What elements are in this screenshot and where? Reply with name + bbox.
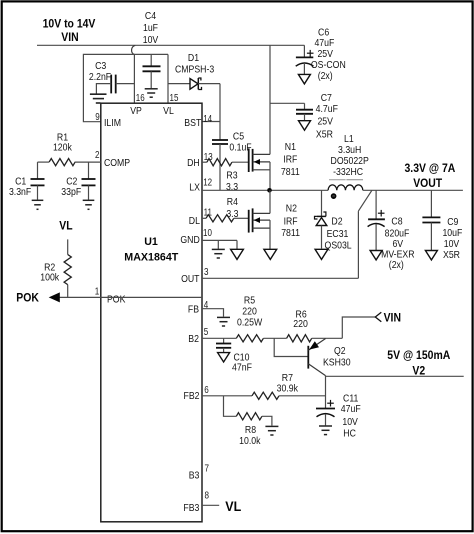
pin label FB3 (183, 502, 199, 514)
pin number 10 (203, 228, 212, 239)
svg-text:13: 13 (204, 152, 213, 163)
capacitor C7 (296, 103, 313, 120)
value label C1 (9, 175, 31, 198)
wire FB2 to R8 (224, 396, 237, 417)
pin label VP (130, 105, 142, 117)
value label Q2 (323, 345, 351, 369)
capacitor C10 (216, 338, 231, 352)
ground C11 (319, 426, 332, 435)
pin label LX (189, 182, 200, 194)
value label L1 (329, 133, 369, 180)
pin label VL (163, 105, 174, 117)
wire VP pin 16 vertical (133, 54, 135, 103)
svg-text:B2: B2 (188, 333, 199, 345)
value label R3 (226, 170, 238, 193)
pin number 11 (204, 208, 213, 219)
svg-text:DH: DH (187, 157, 200, 169)
svg-text:2: 2 (95, 150, 100, 161)
svg-text:-332HC: -332HC (333, 166, 363, 178)
value label C8 (381, 216, 415, 272)
svg-text:220: 220 (242, 305, 257, 317)
diode D2 EC31 QS03L (schottky) (315, 190, 327, 248)
svg-text:MAX1864T: MAX1864T (124, 251, 178, 263)
svg-text:1: 1 (95, 287, 100, 298)
svg-text:3.3nF: 3.3nF (9, 186, 31, 198)
svg-text:5: 5 (204, 327, 209, 338)
value label C4 (143, 10, 159, 46)
svg-text:0.25W: 0.25W (237, 317, 262, 329)
svg-text:Q2: Q2 (334, 345, 346, 357)
pin number 16 (136, 93, 145, 104)
svg-text:VOUT: VOUT (413, 176, 443, 190)
node VIN input label (43, 17, 96, 44)
ground C6 (298, 74, 310, 84)
svg-text:9: 9 (95, 112, 100, 123)
svg-text:VIN: VIN (384, 311, 401, 325)
resistor R4 (202, 215, 249, 222)
svg-text:VL: VL (163, 105, 174, 117)
svg-text:CMPSH-3: CMPSH-3 (175, 64, 214, 76)
value label R2 (40, 261, 60, 283)
pin number 12 (203, 178, 212, 189)
svg-text:POK: POK (107, 294, 125, 306)
pin label DH (187, 157, 200, 169)
value label C9 (442, 216, 462, 261)
svg-text:GND: GND (180, 234, 200, 246)
pin number 8 (205, 490, 210, 501)
svg-text:R3: R3 (226, 170, 237, 182)
capacitor C1 (31, 162, 45, 200)
pin number 4 (204, 300, 209, 311)
IC U1 MAX1864T body (101, 103, 202, 522)
value label R1 (53, 131, 73, 153)
value label D2 (325, 215, 352, 251)
wire FB3 pin 8 (202, 504, 219, 506)
pin number 3 (204, 267, 209, 278)
ground D2 (315, 249, 328, 259)
svg-text:FB: FB (188, 303, 199, 315)
svg-text:OUT: OUT (181, 273, 200, 285)
svg-text:IRF: IRF (284, 215, 298, 227)
svg-text:7811: 7811 (281, 227, 300, 239)
svg-text:220: 220 (293, 318, 308, 330)
svg-text:47nF: 47nF (232, 362, 252, 374)
resistor R3 (202, 159, 249, 166)
svg-text:33pF: 33pF (61, 186, 81, 198)
svg-text:C4: C4 (145, 10, 156, 22)
wire hook from VIN rail down to VP loop (132, 45, 136, 54)
svg-text:R8: R8 (245, 424, 256, 436)
svg-text:1uF: 1uF (143, 22, 158, 34)
pin number 2 (95, 150, 100, 161)
svg-text:4.7uF: 4.7uF (316, 103, 338, 115)
svg-text:3: 3 (204, 267, 209, 278)
resistor R5 (236, 335, 286, 342)
pin number 13 (204, 152, 213, 163)
pin label FB2 (184, 390, 200, 402)
wire VIN rail (37, 44, 304, 46)
svg-text:VL: VL (59, 219, 72, 233)
pin number 9 (95, 112, 100, 123)
pin label COMP (104, 157, 130, 169)
capacitor C2 (82, 162, 96, 200)
diode D1 CMPSH-3 (168, 78, 220, 90)
ground C8 (370, 251, 382, 260)
svg-text:FB3: FB3 (183, 502, 199, 514)
ground C10 (218, 353, 230, 362)
svg-text:(2x): (2x) (318, 70, 333, 82)
pin number 1 (95, 287, 100, 298)
svg-text:VP: VP (130, 105, 142, 117)
ground C9 (425, 251, 437, 260)
svg-text:10V: 10V (143, 34, 159, 46)
node VOUT label (405, 161, 456, 190)
svg-text:3.3: 3.3 (226, 181, 238, 193)
svg-text:N2: N2 (286, 203, 297, 215)
value label N2 (281, 203, 300, 239)
wire ILIM loop (pin 9 to VP/VL top rail) (83, 54, 168, 121)
node LX junction (267, 188, 272, 193)
svg-text:X5R: X5R (316, 128, 333, 140)
ground R8 (265, 426, 278, 435)
resistor R2 (64, 239, 71, 297)
wire FB2 pin 6 (202, 395, 252, 397)
wire FB pin 4 (202, 309, 224, 317)
value label R5 (237, 295, 262, 329)
svg-text:15: 15 (170, 93, 179, 104)
resistor R6 (287, 335, 343, 342)
svg-text:HC: HC (343, 428, 356, 440)
svg-text:IRF: IRF (283, 154, 297, 166)
svg-text:47uF: 47uF (341, 403, 361, 415)
svg-text:3.3: 3.3 (226, 208, 238, 220)
value label D1 (175, 52, 214, 76)
value label N1 (281, 141, 300, 178)
svg-text:10V: 10V (342, 416, 358, 428)
value label R6 (293, 308, 308, 330)
pin number 7 (205, 464, 210, 475)
pin number 6 (204, 385, 209, 396)
wire R6 to VIN connector (342, 317, 375, 338)
svg-text:7811: 7811 (281, 166, 300, 178)
capacitor C11 (316, 400, 335, 426)
value label C10 (232, 352, 252, 374)
node V2 label (387, 348, 450, 377)
pin label GND (180, 234, 200, 246)
svg-text:10: 10 (203, 228, 212, 239)
svg-text:KSH30: KSH30 (323, 357, 351, 369)
ground GND pin triangle (231, 249, 244, 259)
svg-text:QS03L: QS03L (325, 240, 352, 252)
wire OUT sense line (pin 3) (202, 190, 372, 278)
wire V2 rail (326, 376, 464, 409)
value label C6 (311, 27, 346, 83)
node VIN connector arrow (375, 311, 401, 325)
svg-text:POK: POK (16, 291, 39, 305)
svg-text:16: 16 (136, 93, 145, 104)
capacitor C4 (143, 54, 161, 88)
pin label DL (189, 215, 200, 227)
ground C4 (145, 89, 158, 97)
transistor N1 IRF7811 (n-channel MOSFET) (249, 45, 270, 190)
svg-text:7: 7 (205, 464, 210, 475)
capacitor C9 (422, 190, 440, 250)
pin number 5 (204, 327, 209, 338)
ground C7 (299, 121, 311, 131)
ground C1 (32, 200, 44, 209)
svg-text:LX: LX (189, 182, 200, 194)
wire B2 node to Q2 base (274, 338, 308, 356)
wire VL pin 15 vertical (167, 54, 169, 103)
value label R4 (226, 196, 238, 220)
pin label OUT (181, 273, 200, 285)
svg-text:11: 11 (204, 208, 213, 219)
capacitor C3 (96, 75, 134, 94)
transistor N2 IRF7811 (n-channel MOSFET) (249, 190, 270, 249)
wire VOUT rail (363, 189, 463, 191)
resistor R1 (38, 159, 101, 166)
pin label BST (184, 117, 201, 129)
node L1 polarity dot (332, 194, 336, 198)
transistor Q2 KSH30 (308, 339, 325, 376)
pin number 15 (170, 93, 179, 104)
svg-text:D2: D2 (331, 215, 342, 227)
resistor R7 (252, 392, 326, 399)
pin label B3 (189, 470, 200, 482)
svg-text:14: 14 (203, 114, 212, 125)
wire D1 to BST and C5 (202, 84, 220, 140)
svg-text:ILIM: ILIM (104, 117, 121, 129)
svg-text:6: 6 (204, 385, 209, 396)
wire LX rail pin 12 (202, 189, 328, 191)
svg-text:5V @ 150mA: 5V @ 150mA (387, 348, 450, 362)
inductor L1 (328, 185, 363, 190)
svg-text:8: 8 (205, 490, 210, 501)
capacitor C6 (296, 45, 314, 74)
value label C2 (61, 175, 81, 198)
capacitor C8 (368, 190, 385, 250)
node VL label above R2 (59, 219, 72, 233)
value label R7 (277, 372, 299, 394)
ground FB pin (217, 317, 230, 326)
wire B2 pin 5 (202, 337, 236, 339)
svg-text:100k: 100k (40, 272, 60, 284)
pin label ILIM (104, 117, 121, 129)
value label R8 (239, 424, 261, 447)
pin label FB (188, 303, 199, 315)
svg-text:C8: C8 (391, 216, 402, 228)
wire POK pin 1 (58, 296, 202, 298)
svg-text:X5R: X5R (443, 249, 460, 261)
svg-text:25V: 25V (317, 116, 333, 128)
svg-text:30.9k: 30.9k (277, 383, 299, 395)
capacitor C5 (212, 140, 228, 190)
svg-text:2.2nF: 2.2nF (89, 71, 111, 83)
wire GND pin 10 (202, 240, 237, 249)
svg-text:VIN: VIN (61, 30, 78, 44)
svg-text:COMP: COMP (104, 157, 130, 169)
ground GND pin bars (212, 249, 225, 258)
svg-text:U1: U1 (144, 236, 158, 248)
svg-text:FB2: FB2 (184, 390, 200, 402)
resistor R8 (236, 413, 272, 426)
value label C3 (89, 60, 111, 83)
wire VIN branch to C7 (270, 102, 304, 104)
svg-text:BST: BST (184, 117, 201, 129)
pin label B2 (188, 333, 199, 345)
ground C2 (83, 200, 95, 209)
ground C3 (90, 94, 107, 103)
svg-text:D1: D1 (188, 52, 199, 64)
value label C5 (229, 130, 251, 153)
svg-text:B3: B3 (189, 470, 200, 482)
svg-text:N1: N1 (285, 141, 296, 153)
svg-text:10V to 14V: 10V to 14V (43, 17, 96, 31)
svg-text:3.3V @ 7A: 3.3V @ 7A (405, 161, 456, 175)
ground N2 source (264, 249, 277, 259)
svg-text:10.0k: 10.0k (239, 435, 261, 447)
svg-text:DL: DL (189, 215, 200, 227)
svg-text:120k: 120k (53, 142, 73, 154)
svg-text:EC31: EC31 (327, 228, 349, 240)
svg-text:12: 12 (203, 178, 212, 189)
node VL at FB3 (225, 499, 241, 514)
value label C7 (316, 92, 338, 140)
pin number 14 (203, 114, 212, 125)
node POK output arrow (16, 291, 60, 305)
svg-text:V2: V2 (412, 363, 425, 377)
svg-text:R4: R4 (227, 196, 238, 208)
svg-text:(2x): (2x) (389, 259, 404, 271)
value label C11 (341, 393, 361, 440)
svg-text:VL: VL (225, 499, 241, 514)
pin label POK (107, 294, 125, 306)
